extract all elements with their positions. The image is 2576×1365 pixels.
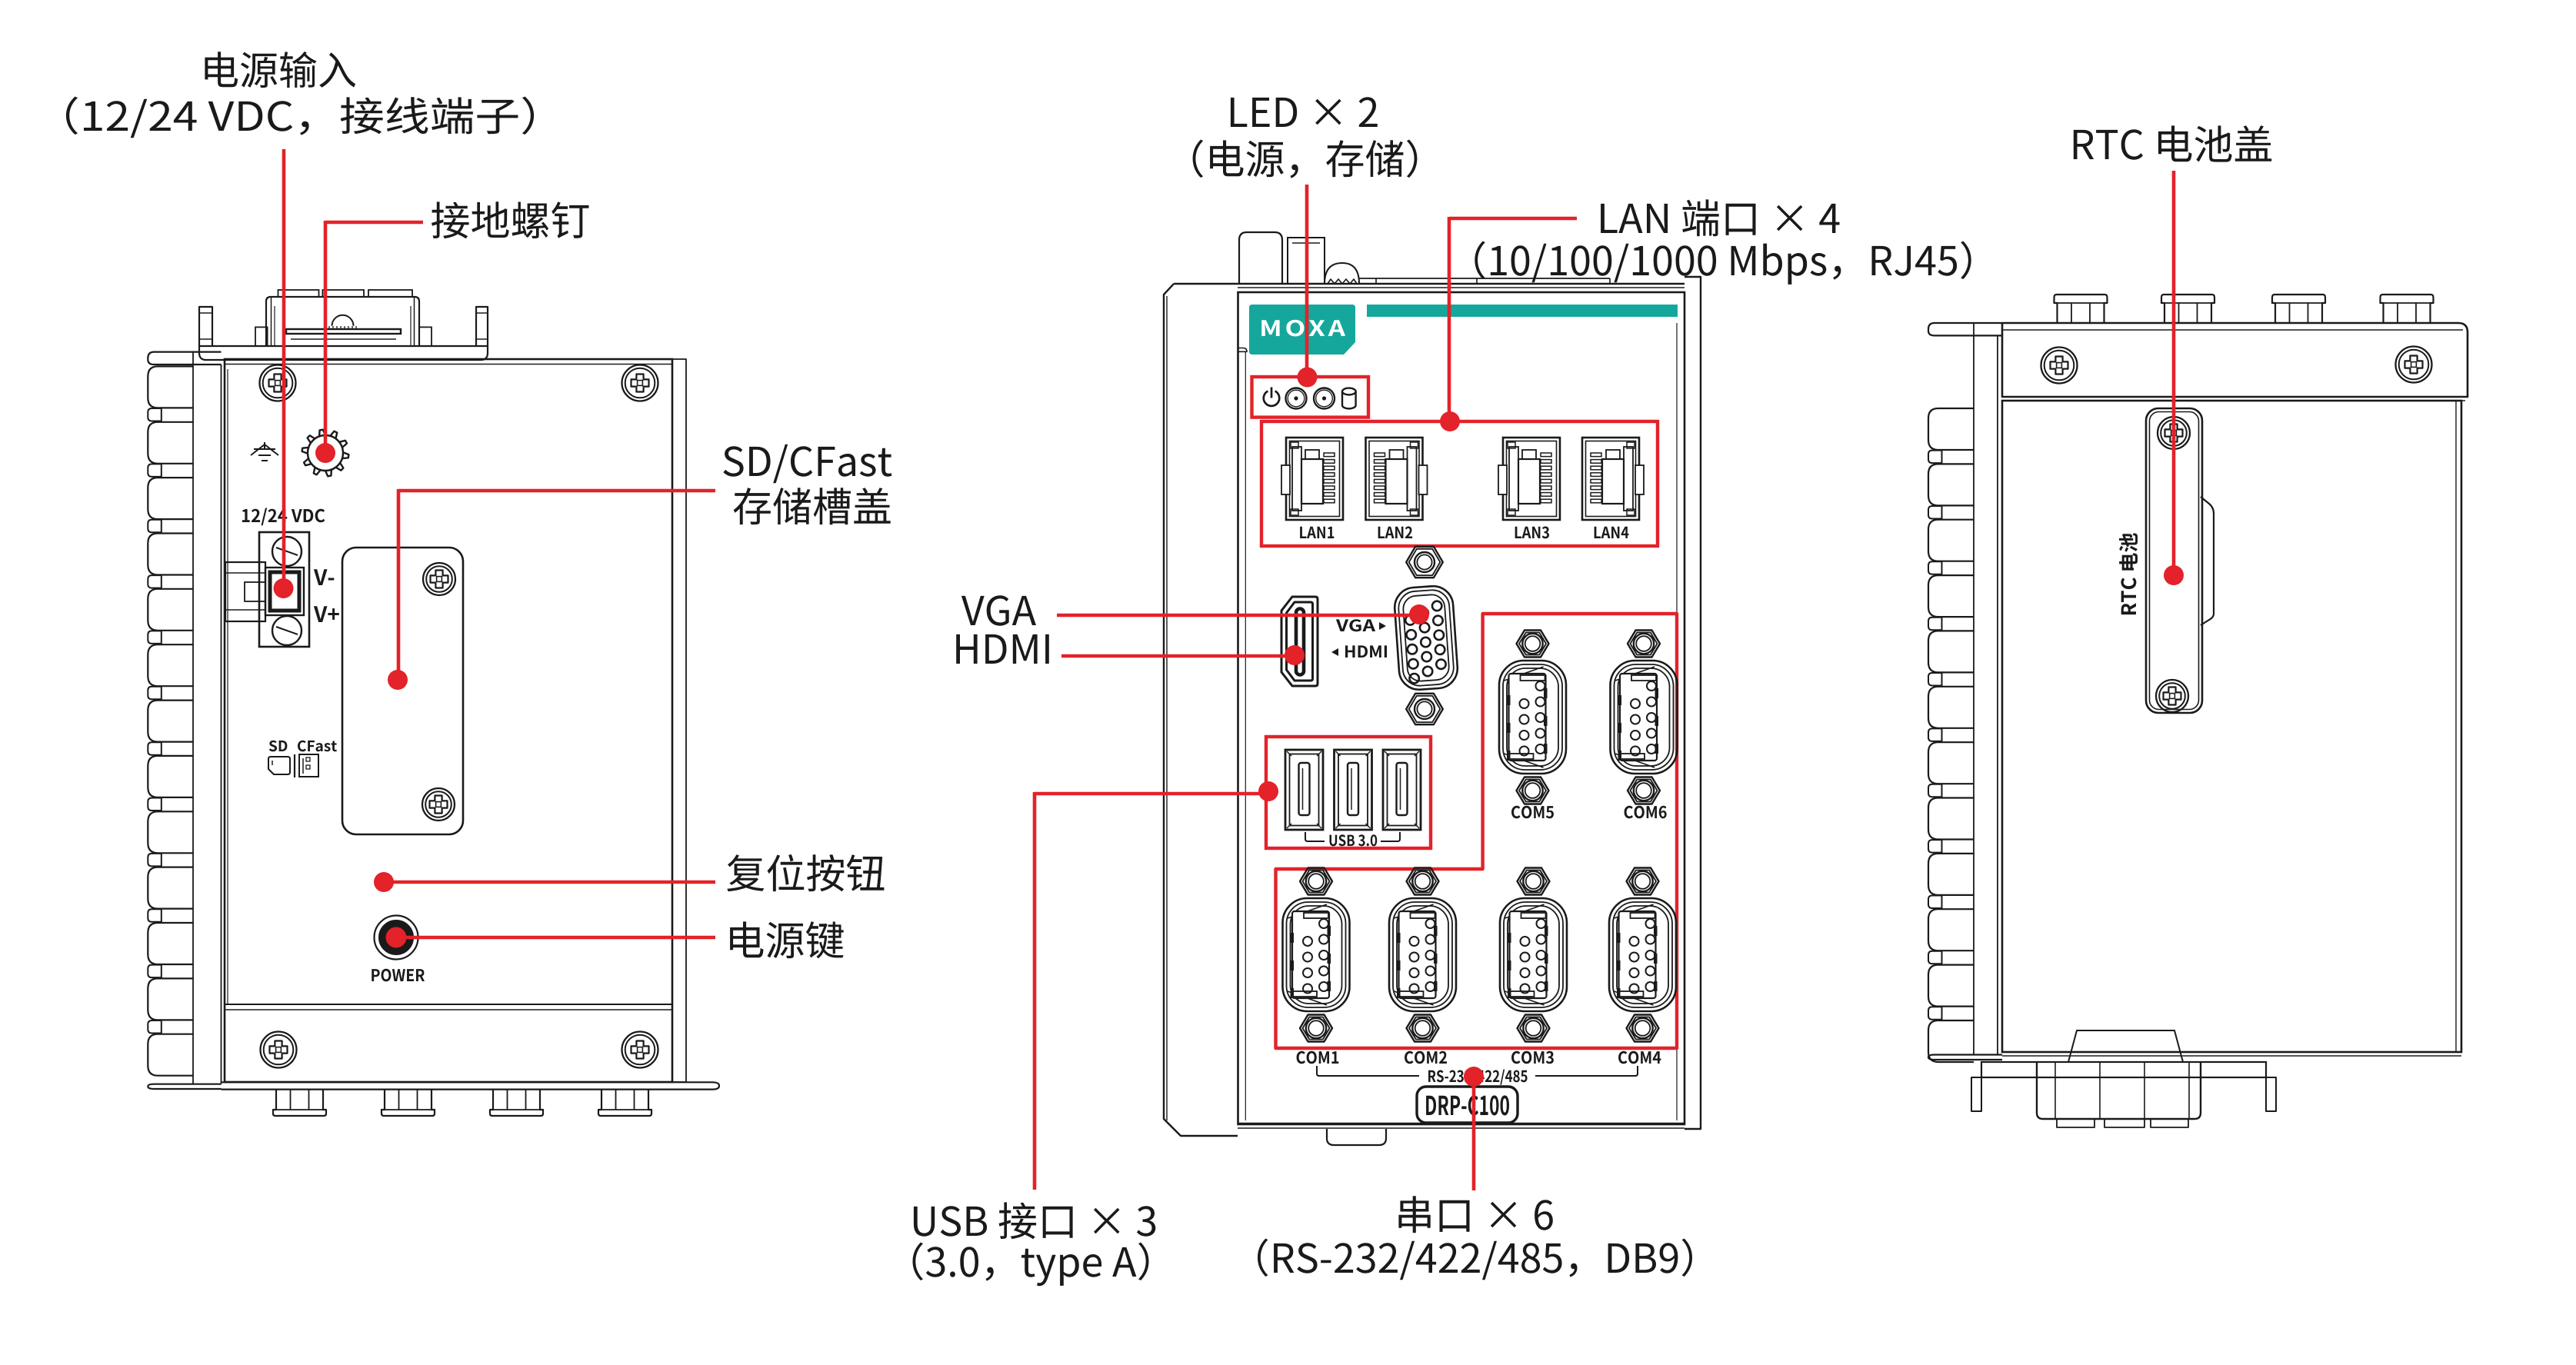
screw, band left	[2041, 348, 2078, 384]
mounting foot	[273, 1089, 326, 1116]
label: 电源输入	[205, 52, 355, 88]
label: LAN1	[1300, 527, 1334, 538]
mounting foot	[598, 1089, 651, 1116]
label: RS-232/422/485	[1428, 1070, 1528, 1085]
label: 12/24 VDC terminal note	[66, 97, 534, 138]
VGA DB15 connector	[1393, 585, 1458, 691]
COM2 DB9	[1407, 868, 1439, 895]
screw, bottom-right	[622, 1032, 658, 1068]
label: COM2	[1405, 1051, 1447, 1064]
label: serial note	[1258, 1239, 1692, 1280]
serial ports red box	[1276, 614, 1678, 1048]
COM4 DB9	[1627, 868, 1659, 895]
label: SD	[269, 741, 288, 752]
top plate	[1359, 278, 1610, 279]
label: MOXA text	[1261, 320, 1345, 337]
label: VGA small	[1336, 619, 1375, 631]
SD card icon	[268, 757, 290, 774]
label: V+	[314, 606, 339, 622]
power button	[375, 916, 418, 960]
label: LAN3	[1515, 527, 1549, 539]
top connector foot	[2381, 295, 2434, 323]
green banner bar	[1367, 305, 1678, 317]
SD/CFast slot cover	[342, 548, 463, 834]
left view chassis body	[225, 359, 672, 1082]
label: USB ports	[914, 1202, 1155, 1239]
staggered back fins	[148, 408, 162, 1034]
label: LED note	[1193, 140, 1418, 178]
clip spring	[1325, 263, 1359, 284]
front view top edge	[1174, 283, 1685, 285]
LAN2 RJ45 port	[1366, 438, 1428, 520]
heatsink bottom bar	[1928, 1055, 2002, 1060]
VGA hex nut top	[1406, 547, 1443, 578]
label: 复位按钮	[727, 854, 884, 891]
USB port 1	[1285, 750, 1323, 830]
screw on SD cover bottom	[422, 788, 455, 821]
USB red box	[1266, 737, 1431, 848]
DIN clip bottom body	[2037, 1062, 2201, 1119]
callout line: reset button	[374, 872, 394, 892]
COM6 DB9	[1628, 631, 1660, 658]
label: RTC 电池盖	[2074, 125, 2271, 161]
front view right sliver	[1685, 277, 1701, 1129]
screw, RTC cover top	[2158, 417, 2190, 449]
label: USB note	[913, 1243, 1149, 1287]
label: LAN4	[1595, 527, 1629, 538]
label: DRP-C100	[1426, 1095, 1509, 1115]
callout line: serial ports	[1464, 1067, 1484, 1087]
front view left side sliver	[1164, 284, 1238, 1136]
power terminal block	[259, 532, 309, 647]
label: LAN ports	[1601, 199, 1839, 236]
label: 电源键	[730, 921, 844, 958]
LED circle 1	[1286, 388, 1307, 409]
label: LAN note	[1475, 241, 1971, 285]
right view body	[2002, 401, 2461, 1052]
terminal wire clamp	[225, 562, 265, 621]
bottom DIN tab of front view	[1327, 1129, 1386, 1145]
callout line: LAN ports	[1449, 217, 1577, 221]
heatsink fin top bar	[1928, 323, 2002, 335]
label: USB 3.0	[1329, 834, 1377, 846]
callout line: VGA	[1057, 614, 1419, 618]
LAN1 RJ45 port	[1281, 438, 1343, 520]
label: COM1	[1297, 1051, 1339, 1064]
heatsink bottom bar	[148, 1084, 221, 1089]
screw, band right	[2396, 347, 2432, 383]
front bottom edge	[1238, 1123, 1685, 1124]
USB port 3	[1383, 750, 1421, 830]
LED panel red box	[1252, 377, 1369, 418]
DIN clip bottom trapezoid	[2068, 1030, 2183, 1062]
screw, bottom-left	[261, 1032, 297, 1068]
RS-232/422/485 bracket	[1317, 1066, 1419, 1076]
top connector foot	[2161, 295, 2214, 323]
fin base line	[1973, 323, 1974, 1055]
callout line: grounding screw	[325, 221, 423, 225]
callout line: power button	[386, 927, 406, 947]
label: COM6	[1625, 806, 1667, 819]
DIN clip above top edge	[1239, 232, 1282, 284]
staggered back fins	[1928, 451, 1942, 1020]
heatsink fins	[1928, 408, 1974, 1062]
top connector foot	[2054, 295, 2108, 323]
ground symbol	[251, 442, 278, 461]
label: 存储槽盖	[734, 488, 891, 524]
heatsink fin top bar	[148, 352, 221, 365]
screw, top-right	[622, 365, 658, 401]
bottom plate strip of left view	[222, 1082, 720, 1089]
label: SD/CFast	[723, 444, 891, 484]
label: LED x 2	[1231, 97, 1378, 127]
screw, RTC cover bottom	[2156, 680, 2188, 712]
label: COM4	[1618, 1051, 1661, 1064]
callout line: power input	[282, 149, 286, 588]
label: HDMI small	[1345, 645, 1387, 658]
COM3 DB9	[1518, 868, 1550, 895]
callout line: RTC cover	[2172, 171, 2176, 575]
screw on SD cover top	[423, 563, 455, 595]
COM1 DB9	[1300, 868, 1332, 895]
USB port 2	[1335, 750, 1372, 830]
VGA hex nut bottom	[1406, 694, 1443, 724]
power LED icon	[1264, 388, 1279, 406]
label: V-	[314, 569, 334, 585]
storage cylinder icon	[1342, 391, 1356, 408]
screw, top-left	[260, 365, 296, 401]
right view top band	[2002, 323, 2468, 397]
callout line: SD/CFast cover	[398, 489, 715, 493]
LED circle 2	[1314, 388, 1335, 409]
label: VGA callout text	[961, 595, 1036, 626]
clip spring bar	[286, 329, 401, 334]
DRP-C100 badge	[1417, 1087, 1518, 1123]
bottom band of left view	[225, 1004, 672, 1005]
USB 3.0 label and bracket	[1305, 832, 1325, 841]
label: HDMI callout text	[956, 634, 1049, 664]
DIN-rail clip on top of left view	[199, 307, 212, 346]
heatsink base edge	[221, 365, 222, 1084]
COM5 DB9	[1517, 631, 1549, 658]
label: POWER	[372, 969, 425, 982]
top connector foot	[2272, 295, 2325, 323]
battery cover side bump	[2201, 497, 2214, 625]
LAN4 RJN45 port	[1582, 438, 1644, 520]
label: COM5	[1511, 806, 1554, 819]
right heatsink base edge	[1997, 335, 1998, 1054]
mounting foot	[382, 1089, 435, 1116]
fin base line	[192, 352, 194, 1084]
label: COM3	[1511, 1051, 1554, 1064]
CFast icon	[294, 754, 295, 777]
right sliver of left view	[672, 359, 686, 1082]
front face outline	[1238, 292, 1685, 1124]
clip dome	[332, 315, 354, 326]
heatsink fins	[148, 366, 193, 1075]
LAN3 RJ45 port	[1498, 438, 1560, 520]
callout line: HDMI	[1061, 654, 1295, 658]
label: LAN2	[1378, 527, 1412, 539]
label: CFast	[298, 741, 337, 752]
reset button red dot	[375, 873, 394, 892]
label: serial ports	[1398, 1196, 1552, 1233]
label: 12/24 VDC	[242, 508, 325, 526]
label: RTC 电池	[2119, 533, 2138, 614]
LAN ports red box	[1261, 421, 1658, 546]
grounding screw with toothed washer	[308, 435, 343, 471]
label: 接地螺钉	[432, 201, 589, 238]
HDMI port	[1281, 597, 1318, 686]
mounting foot	[490, 1089, 543, 1116]
RTC battery cover	[2146, 408, 2202, 713]
callout line: USB ports	[1035, 792, 1268, 796]
bottom DIN rail bracket	[1981, 1062, 2266, 1077]
MOXA logo flag	[1249, 305, 1355, 355]
callout line: LEDs	[1305, 185, 1309, 377]
